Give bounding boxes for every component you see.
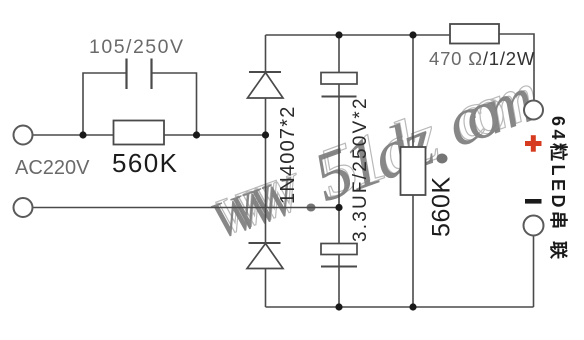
capacitor C2 3.3UF/250V top (321, 73, 357, 97)
junction dot top rail cap (335, 31, 342, 38)
wire bottom rail (266, 306, 534, 308)
resistor R3 560K vertical (401, 147, 426, 195)
resistor R2 470ohm (450, 24, 499, 44)
svg-text:105/250V: 105/250V (89, 36, 185, 58)
wire diode branch (265, 35, 267, 307)
wire minus terminal to bottom rail (533, 236, 535, 308)
wire capacitor branch (338, 35, 340, 307)
junction dot right combo (193, 131, 200, 138)
resistor R1 560K (114, 121, 165, 145)
wire top rail right + down to + terminal (499, 34, 534, 101)
svg-text:470 Ω/1/2W: 470 Ω/1/2W (429, 48, 535, 69)
capacitor C1 105/250V (127, 59, 152, 90)
wire parallel-combo left stub (83, 73, 126, 135)
terminal output minus (524, 216, 544, 236)
svg-text:64粒LED串 联: 64粒LED串 联 (548, 116, 569, 263)
diode D2 1N4007 (247, 243, 283, 269)
svg-text:3.3UF/250V*2: 3.3UF/250V*2 (350, 96, 371, 242)
capacitor C3 3.3UF/250V bottom (321, 244, 357, 267)
terminal output plus (524, 101, 543, 120)
svg-text:AC220V: AC220V (15, 157, 90, 179)
wire bottom AC lead (33, 207, 339, 209)
junction dot bottom rail R3 (409, 303, 416, 310)
wire top AC lead (33, 134, 266, 136)
svg-text:560K: 560K (428, 176, 456, 237)
svg-text:1N4007*2: 1N4007*2 (277, 105, 299, 204)
junction dot top rail R3 (409, 31, 416, 38)
junction dot AC to diode branch (262, 131, 269, 138)
junction dot AC to cap branch (335, 204, 342, 211)
wire parallel-combo right stub (152, 73, 197, 135)
wire top rail (266, 34, 451, 36)
label polarity minus (525, 199, 542, 204)
svg-text:560K: 560K (112, 148, 178, 178)
junction dot bottom rail cap (335, 303, 342, 310)
junction dot left combo (79, 131, 86, 138)
terminal AC line 2 (14, 198, 33, 217)
wire resistor R3 branch (412, 35, 414, 307)
diode D1 1N4007 (248, 72, 284, 98)
terminal AC line 1 (14, 126, 33, 145)
watermark www.51dz.com (204, 57, 548, 251)
label polarity plus (525, 135, 542, 152)
